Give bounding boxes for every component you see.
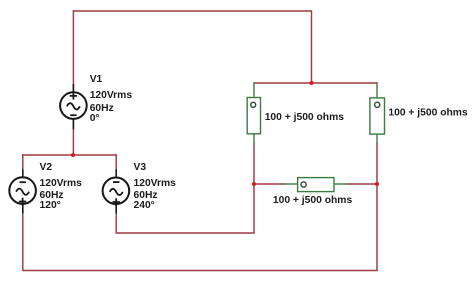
svg-text:V2: V2 bbox=[40, 162, 53, 173]
svg-text:V1: V1 bbox=[90, 74, 103, 85]
svg-text:100 + j500 ohms: 100 + j500 ohms bbox=[388, 108, 468, 119]
svg-text:120°: 120° bbox=[40, 200, 61, 211]
svg-text:100 + j500 ohms: 100 + j500 ohms bbox=[273, 195, 353, 206]
svg-text:120Vrms: 120Vrms bbox=[40, 178, 83, 189]
svg-text:120Vrms: 120Vrms bbox=[90, 90, 133, 101]
svg-text:120Vrms: 120Vrms bbox=[134, 178, 177, 189]
svg-text:240°: 240° bbox=[134, 200, 155, 211]
svg-text:V3: V3 bbox=[134, 162, 147, 173]
svg-text:100 + j500 ohms: 100 + j500 ohms bbox=[265, 112, 345, 123]
svg-text:0°: 0° bbox=[90, 113, 100, 124]
